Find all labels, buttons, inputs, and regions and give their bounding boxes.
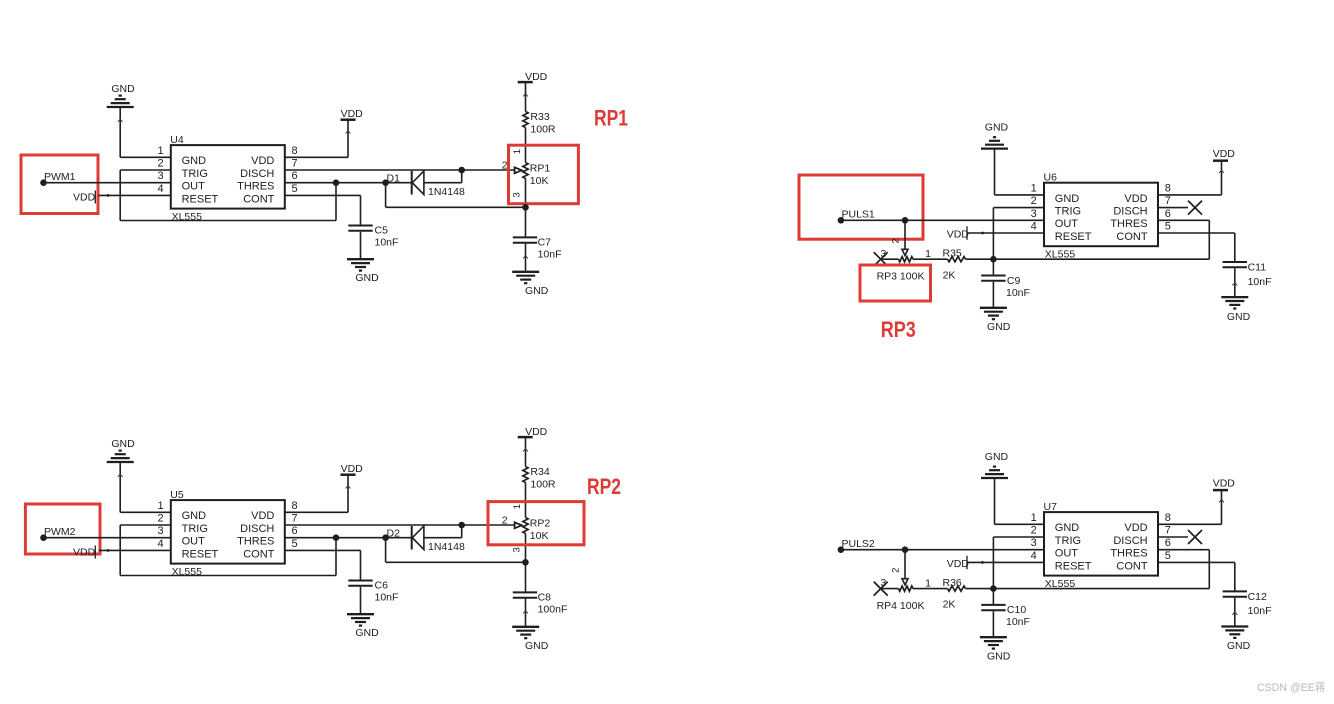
capacitor C10	[981, 605, 1005, 610]
pin number 3 of RP4	[880, 577, 886, 589]
svg-text:10nF: 10nF	[375, 592, 399, 604]
svg-text:RP3: RP3	[881, 317, 916, 342]
potentiometer RP2 wiper arrow	[515, 522, 522, 528]
junction D2 cathode node	[382, 534, 389, 541]
wire TRIG pin2 to C9 node	[993, 208, 1044, 260]
wire DISCH pin7 stub of U6	[1158, 207, 1188, 209]
svg-text:2: 2	[891, 568, 902, 573]
svg-text:RESET: RESET	[182, 193, 219, 205]
wire THRES node down to RP1 pin3 node	[386, 183, 526, 208]
value 100R of R33	[530, 123, 556, 135]
IC U7 XL555 body	[1044, 512, 1158, 576]
power port VDD above R34	[518, 426, 548, 438]
wire C12 to GND	[1232, 598, 1237, 627]
label C7	[538, 237, 552, 249]
junction D1 anode branch on pin7 wire	[458, 167, 465, 174]
label R33	[530, 111, 549, 123]
svg-text:10nF: 10nF	[375, 237, 399, 249]
svg-text:C12: C12	[1248, 591, 1267, 603]
wire VDD label to pin 4 of U6	[968, 232, 1044, 235]
potentiometer RP1 wiper arrow	[515, 167, 522, 173]
svg-text:1: 1	[1031, 182, 1037, 194]
wire C6 to GND	[360, 587, 362, 614]
IC U5 right pin numbers 8-5	[292, 500, 298, 550]
resistor R36 2K	[948, 586, 966, 591]
value 2K of R36	[943, 599, 956, 611]
IC U5 left pin numbers 1-4	[157, 500, 163, 550]
IC U4 right pin numbers 8-5	[292, 145, 298, 195]
label R35	[943, 247, 962, 259]
net label PULS2 on OUT pin 3	[838, 538, 875, 553]
svg-text:D1: D1	[387, 172, 401, 184]
label C11	[1248, 262, 1267, 274]
wire node to C10	[992, 589, 994, 605]
svg-text:GND: GND	[987, 651, 1011, 663]
IC U6 designator	[1044, 172, 1058, 184]
wire GND to pin1 of U4	[118, 107, 171, 157]
wire DISCH pin7 stub of U7	[1158, 536, 1188, 538]
svg-text:1: 1	[925, 248, 931, 260]
IC U7 designator	[1044, 501, 1058, 513]
IC U7 left pin names	[1055, 522, 1092, 572]
svg-text:C7: C7	[538, 237, 552, 249]
svg-text:8: 8	[292, 145, 298, 157]
IC U7 left pin numbers 1-4	[1031, 512, 1037, 562]
svg-text:6: 6	[292, 170, 298, 182]
IC U5 right pin names	[237, 510, 275, 560]
svg-text:VDD: VDD	[341, 463, 364, 475]
label C5	[375, 225, 389, 237]
IC U4 designator	[170, 134, 184, 146]
wire C9 to GND	[992, 282, 994, 308]
svg-text:VDD: VDD	[341, 108, 364, 120]
svg-text:OUT: OUT	[182, 536, 206, 548]
svg-text:CONT: CONT	[243, 548, 274, 560]
wire GND to pin1 of U5	[118, 462, 171, 512]
label C6	[375, 580, 389, 592]
svg-text:8: 8	[292, 500, 298, 512]
wire DISCH pin7 to RP1 wiper	[285, 169, 515, 171]
value 10nF of C12	[1248, 605, 1272, 617]
svg-text:6: 6	[1165, 208, 1171, 220]
svg-text:VDD: VDD	[1124, 522, 1147, 534]
svg-text:RP1: RP1	[594, 106, 628, 131]
svg-text:3: 3	[1031, 537, 1037, 549]
power port GND top of U5	[107, 438, 135, 462]
svg-text:U5: U5	[170, 489, 184, 501]
capacitor C5	[348, 226, 372, 231]
svg-text:3: 3	[880, 248, 886, 260]
pin number 2 of RP4	[891, 568, 902, 573]
wire VDD to pin 8 of U4	[285, 120, 351, 158]
svg-text:2: 2	[502, 160, 508, 172]
junction RP1 pin3 with C7	[522, 204, 529, 211]
value 10nF of C5	[375, 237, 399, 249]
svg-text:PULS2: PULS2	[842, 538, 875, 550]
svg-text:100R: 100R	[530, 478, 556, 490]
IC U7 right pin names	[1110, 522, 1148, 572]
wire OUT down to RP4 wiper	[902, 550, 908, 585]
svg-text:10K: 10K	[530, 175, 549, 187]
red annotation label RP3	[881, 317, 916, 342]
wire VDD to pin 8 of U7	[1158, 490, 1224, 524]
value 10nF of C7	[538, 249, 562, 261]
svg-text:C10: C10	[1007, 604, 1026, 616]
svg-text:7: 7	[1165, 195, 1171, 207]
wire THRES node down to RP2 pin3 node	[386, 538, 526, 563]
svg-text:RP2: RP2	[530, 517, 551, 529]
svg-text:RP1: RP1	[530, 162, 551, 174]
svg-text:4: 4	[1031, 550, 1037, 562]
wire C8 to GND	[523, 599, 528, 627]
wire node to C9	[992, 259, 994, 275]
svg-text:4: 4	[1031, 221, 1037, 233]
svg-text:C9: C9	[1007, 275, 1021, 287]
capacitor C12	[1223, 591, 1247, 596]
svg-text:VDD: VDD	[73, 546, 96, 558]
ground below C11	[1221, 297, 1250, 323]
capacitor C11	[1223, 262, 1247, 267]
svg-text:GND: GND	[355, 272, 379, 284]
svg-text:1: 1	[925, 578, 931, 590]
label RP2	[530, 517, 551, 529]
svg-text:1: 1	[157, 500, 163, 512]
diode D1 1N4148	[412, 170, 462, 195]
svg-text:7: 7	[292, 158, 298, 170]
svg-text:C8: C8	[538, 592, 552, 604]
svg-text:R36: R36	[943, 577, 962, 589]
wire OUT down to RP3 wiper	[902, 220, 908, 255]
svg-text:10nF: 10nF	[1248, 605, 1272, 617]
svg-text:5: 5	[1165, 550, 1171, 562]
wire THRES pin6 to D1	[285, 182, 412, 184]
resistor R33 100R	[523, 112, 528, 128]
IC U6 left pin numbers 1-4	[1031, 182, 1037, 232]
svg-text:U6: U6	[1044, 172, 1058, 184]
svg-text:D2: D2	[387, 527, 401, 539]
wire R33 to RP1 pin1	[525, 128, 527, 163]
value 10K of RP2	[530, 530, 549, 542]
wire C7 to GND	[523, 244, 528, 272]
junction OUT to wiper of RP4	[902, 546, 909, 553]
svg-text:VDD: VDD	[1213, 148, 1236, 160]
IC U4 part name XL555	[172, 211, 203, 223]
IC U5 XL555 body	[171, 500, 285, 563]
svg-text:10nF: 10nF	[1006, 287, 1030, 299]
svg-text:C5: C5	[375, 225, 389, 237]
wire C5 to GND	[360, 232, 362, 259]
svg-text:RESET: RESET	[1055, 231, 1092, 243]
junction C9 node	[990, 256, 997, 263]
svg-text:RESET: RESET	[1055, 560, 1092, 572]
svg-text:5: 5	[1165, 221, 1171, 233]
power port VDD on pin 8 of U5	[341, 463, 364, 475]
svg-text:2: 2	[1031, 195, 1037, 207]
pin number 2 of RP2	[502, 515, 508, 527]
wire VDD to pin 8 of U6	[1158, 161, 1224, 195]
junction OUT to wiper of RP3	[902, 217, 909, 224]
pin number 1 of RP3	[925, 248, 931, 260]
junction C10 node	[990, 585, 997, 592]
wire CONT pin5 to C12	[1158, 562, 1235, 591]
wire GND to pin1 of U6	[995, 149, 1045, 195]
red annotation box around PULS1	[799, 175, 923, 239]
power port GND top of U7	[981, 451, 1009, 478]
red annotation box around PWM2	[25, 504, 100, 554]
capacitor C8	[513, 592, 537, 597]
svg-text:GND: GND	[1227, 311, 1251, 323]
svg-text:GND: GND	[525, 640, 549, 652]
svg-text:OUT: OUT	[1055, 218, 1079, 230]
wire CONT pin5 to C6	[285, 550, 361, 580]
svg-text:DISCH: DISCH	[240, 523, 274, 535]
svg-text:3: 3	[880, 577, 886, 589]
pin number 3 of RP2	[511, 547, 522, 552]
svg-text:VDD: VDD	[251, 155, 274, 167]
svg-text:GND: GND	[355, 627, 379, 639]
wire VDD label to pin 4 of U7	[968, 561, 1044, 564]
IC U4 XL555 body	[171, 145, 285, 209]
wire GND to pin1 of U7	[995, 478, 1045, 524]
svg-text:GND: GND	[985, 121, 1009, 133]
svg-text:THRES: THRES	[237, 536, 274, 548]
wire CONT pin5 to C5	[285, 195, 361, 225]
svg-text:PULS1: PULS1	[842, 209, 875, 221]
IC U6 XL555 body	[1044, 183, 1158, 247]
red annotation box around PWM1	[21, 155, 98, 214]
label RP1	[530, 162, 551, 174]
svg-text:C11: C11	[1248, 262, 1267, 274]
no-connect cross on DISCH pin7 of U7	[1188, 530, 1202, 544]
svg-text:VDD: VDD	[1213, 478, 1236, 490]
svg-text:GND: GND	[111, 438, 135, 450]
svg-text:1: 1	[512, 504, 523, 509]
pin number 1 of RP1	[512, 149, 523, 154]
svg-text:GND: GND	[525, 285, 549, 297]
wire PWM1 to pin 3	[44, 182, 171, 184]
svg-text:U4: U4	[170, 134, 184, 146]
svg-text:DISCH: DISCH	[1113, 206, 1147, 218]
svg-text:7: 7	[292, 513, 298, 525]
pin number 2 of RP3	[891, 238, 902, 243]
svg-text:10nF: 10nF	[1248, 276, 1272, 288]
wire TRIG pin2 loop to THRES net of U5	[120, 525, 336, 576]
value 1N4148 of D1	[428, 186, 465, 198]
svg-text:CONT: CONT	[1116, 231, 1147, 243]
value 10K of RP1	[530, 175, 549, 187]
red annotation label RP2	[587, 474, 621, 499]
svg-text:2: 2	[157, 158, 163, 170]
svg-text:GND: GND	[987, 321, 1011, 333]
svg-text:5: 5	[292, 538, 298, 550]
svg-text:C6: C6	[375, 580, 389, 592]
svg-text:CONT: CONT	[1116, 560, 1147, 572]
pin number 3 of RP1	[511, 192, 522, 197]
label R34	[530, 466, 549, 478]
svg-text:6: 6	[292, 525, 298, 537]
net label PWM1 on OUT pin 3	[40, 171, 75, 186]
wire RP2 pin3 to C8	[525, 562, 527, 592]
ground below C12	[1221, 627, 1250, 653]
wire PULS2 to pin 3 of U7	[841, 549, 1044, 551]
svg-text:OUT: OUT	[1055, 548, 1079, 560]
svg-text:GND: GND	[985, 451, 1009, 463]
svg-text:R34: R34	[530, 466, 549, 478]
pin number 1 of RP2	[512, 504, 523, 509]
svg-text:TRIG: TRIG	[1055, 206, 1081, 218]
wire VDD label to pin 4 of U4	[99, 194, 171, 197]
svg-text:R33: R33	[530, 111, 549, 123]
svg-text:U7: U7	[1044, 501, 1058, 513]
capacitor C9	[981, 276, 1005, 281]
label R36	[943, 577, 962, 589]
pin number 2 of RP1	[502, 160, 508, 172]
net label VDD on RESET pin 4 of U5	[73, 546, 96, 559]
label C12	[1248, 591, 1267, 603]
power port VDD on pin 8 of U7	[1213, 478, 1236, 491]
wire R36 to C10 node and THRES	[966, 550, 1210, 589]
svg-text:8: 8	[1165, 512, 1171, 524]
net label VDD on RESET pin 4 of U7	[947, 556, 970, 570]
wire THRES pin6 to D2	[285, 537, 412, 539]
value 2K of R35	[943, 269, 956, 281]
label RP4 100K	[877, 600, 925, 612]
svg-text:4: 4	[157, 183, 163, 195]
wire PWM2 to pin 3	[44, 537, 171, 539]
svg-text:3: 3	[1031, 208, 1037, 220]
junction D1 cathode node	[382, 179, 389, 186]
net label VDD on RESET pin 4 of U4	[73, 191, 96, 204]
IC U6 right pin names	[1110, 193, 1148, 243]
svg-text:GND: GND	[1227, 640, 1251, 652]
wire TRIG pin2 to C10 node	[993, 537, 1044, 589]
svg-text:1: 1	[157, 145, 163, 157]
svg-text:2: 2	[157, 513, 163, 525]
diode D2 1N4148	[412, 525, 462, 550]
svg-text:4: 4	[157, 538, 163, 550]
no-connect cross on RP4 pin 3	[874, 582, 888, 596]
IC U5 part name XL555	[172, 566, 203, 578]
svg-text:10nF: 10nF	[538, 249, 562, 261]
power port GND top of U4	[107, 83, 135, 107]
ground below C10	[980, 637, 1011, 662]
net label PWM2 on OUT pin 3	[40, 526, 75, 541]
svg-text:RP3 100K: RP3 100K	[877, 271, 925, 283]
power port VDD on pin 8 of U4	[341, 108, 364, 120]
svg-text:PWM2: PWM2	[44, 526, 76, 538]
svg-text:7: 7	[1165, 525, 1171, 537]
power port GND top of U6	[981, 121, 1009, 148]
wire RP1 pin3 to C7	[525, 207, 527, 237]
IC U7 part name XL555	[1045, 578, 1076, 590]
wire VDD to pin 8 of U5	[285, 475, 351, 513]
resistor R34 100R	[523, 467, 528, 483]
svg-text:GND: GND	[1055, 522, 1080, 534]
wire R35 to C9 node and THRES	[966, 220, 1210, 259]
net label PULS1 on OUT pin 3	[838, 209, 875, 224]
svg-text:CSDN @EE蒋: CSDN @EE蒋	[1257, 682, 1325, 694]
svg-text:1: 1	[512, 149, 523, 154]
wire VDD to R34	[523, 437, 528, 466]
svg-text:100R: 100R	[530, 123, 556, 135]
svg-text:2: 2	[502, 515, 508, 527]
label D2	[387, 527, 401, 539]
svg-text:2K: 2K	[943, 269, 956, 281]
IC U5 left pin names	[182, 510, 219, 560]
value 10nF of C10	[1006, 616, 1030, 628]
svg-text:1N4148: 1N4148	[428, 186, 465, 198]
svg-text:RP4 100K: RP4 100K	[877, 600, 925, 612]
watermark CSDN @EE蒋	[1257, 682, 1325, 694]
value 10nF of C9	[1006, 287, 1030, 299]
value 10nF of C11	[1248, 276, 1272, 288]
svg-text:THRES: THRES	[1110, 548, 1147, 560]
red annotation box around RP3 label	[860, 265, 931, 301]
capacitor C6	[348, 581, 372, 586]
svg-text:R35: R35	[943, 247, 962, 259]
svg-text:3: 3	[157, 170, 163, 182]
svg-text:1: 1	[1031, 512, 1037, 524]
net label VDD on RESET pin 4 of U6	[947, 226, 970, 240]
junction RP2 pin3 with C8	[522, 559, 529, 566]
svg-text:2K: 2K	[943, 599, 956, 611]
power port VDD above R33	[518, 71, 548, 83]
svg-text:100nF: 100nF	[538, 604, 568, 616]
wire PULS1 to pin 3 of U6	[841, 219, 1044, 221]
svg-text:6: 6	[1165, 537, 1171, 549]
wire VDD to R33	[523, 82, 528, 111]
label RP3 100K	[877, 271, 925, 283]
wire C10 to GND	[992, 611, 994, 637]
ground below C6	[347, 614, 379, 639]
resistor R35 2K	[948, 257, 966, 262]
pin number 1 of RP4	[925, 578, 931, 590]
wire C11 to GND	[1232, 268, 1237, 297]
no-connect cross on DISCH pin7 of U6	[1188, 201, 1202, 215]
svg-text:DISCH: DISCH	[1113, 535, 1147, 547]
IC U5 designator	[170, 489, 184, 501]
svg-text:GND: GND	[182, 155, 207, 167]
svg-text:8: 8	[1165, 182, 1171, 194]
svg-text:TRIG: TRIG	[182, 168, 208, 180]
svg-text:RP2: RP2	[587, 474, 621, 499]
svg-text:DISCH: DISCH	[240, 168, 274, 180]
ground below C9	[980, 308, 1011, 333]
svg-text:VDD: VDD	[73, 191, 96, 203]
IC U6 left pin names	[1055, 193, 1092, 243]
IC U6 right pin numbers 8-5	[1165, 182, 1171, 232]
svg-text:TRIG: TRIG	[1055, 535, 1081, 547]
svg-text:PWM1: PWM1	[44, 171, 76, 183]
IC U7 right pin numbers 8-5	[1165, 512, 1171, 562]
wire R34 to RP2 pin1	[525, 483, 527, 518]
svg-text:10K: 10K	[530, 530, 549, 542]
IC U6 part name XL555	[1045, 249, 1076, 261]
red annotation box around RP2	[488, 502, 584, 545]
svg-text:2: 2	[1031, 525, 1037, 537]
label C9	[1007, 275, 1021, 287]
svg-text:VDD: VDD	[947, 228, 970, 240]
potentiometer RP4 body	[881, 586, 948, 591]
svg-text:TRIG: TRIG	[182, 523, 208, 535]
IC U4 left pin numbers 1-4	[157, 145, 163, 195]
svg-text:1N4148: 1N4148	[428, 541, 465, 553]
svg-text:CONT: CONT	[243, 193, 274, 205]
svg-text:VDD: VDD	[1124, 193, 1147, 205]
svg-text:THRES: THRES	[1110, 218, 1147, 230]
pin number 3 of RP3	[880, 248, 886, 260]
svg-text:3: 3	[511, 547, 522, 552]
